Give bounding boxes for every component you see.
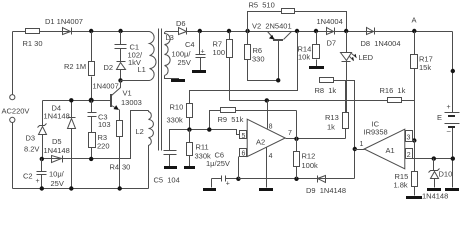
svg-text:D7: D7: [327, 39, 337, 48]
resistor R8: [320, 78, 334, 83]
node D3-C2-D5: [40, 157, 44, 161]
resistor R10: [187, 104, 193, 118]
resistor R15: [414, 141, 416, 196]
inductor L3 secondary winding: [164, 31, 178, 75]
svg-text:10k: 10k: [298, 53, 310, 62]
diode D8: [367, 28, 374, 35]
svg-text:1N4148: 1N4148: [44, 112, 70, 121]
node V2 base junction: [276, 78, 280, 82]
svg-text:5: 5: [242, 133, 246, 140]
wire left vertical lower: [12, 123, 14, 189]
svg-text:E: E: [437, 113, 442, 122]
diode D7: [327, 28, 334, 35]
node pin7 junction: [294, 137, 298, 141]
svg-text:LED: LED: [359, 53, 374, 62]
node rail down-branch: [295, 29, 299, 33]
svg-text:R2 1M: R2 1M: [64, 62, 86, 71]
svg-text:+: +: [447, 104, 451, 111]
resistor R9 feedback: [210, 111, 297, 139]
svg-text:AC220V: AC220V: [2, 107, 30, 116]
node R2-C3 junction: [89, 98, 94, 103]
svg-text:R9 51k: R9 51k: [218, 115, 244, 124]
wire mid-left rail: [42, 111, 149, 159]
node LED junction: [344, 29, 348, 33]
svg-text:R5 510: R5 510: [249, 1, 275, 10]
svg-text:330k: 330k: [167, 116, 184, 125]
node D4 bottom rail: [69, 186, 73, 190]
node junction rail-R2: [89, 29, 93, 33]
svg-text:D8 1N4004: D8 1N4004: [361, 39, 401, 48]
resistor R5: [248, 12, 347, 32]
wire battery vertical: [452, 32, 454, 188]
svg-text:+: +: [36, 178, 40, 185]
svg-text:6: 6: [242, 151, 246, 158]
node C6-pin6 junction: [236, 177, 240, 181]
resistor R11: [189, 130, 191, 167]
resistor R3: [89, 133, 96, 148]
svg-text:1N4148: 1N4148: [422, 192, 448, 201]
resistor R12: [296, 139, 298, 179]
wire rail to R10: [190, 32, 298, 104]
svg-text:100k: 100k: [302, 161, 319, 170]
node R12 bottom: [294, 177, 298, 181]
ground battery: [445, 188, 459, 191]
node A: [412, 29, 416, 33]
inductor L1 primary winding: [150, 32, 156, 81]
node C4 junction: [198, 29, 202, 33]
battery E: [445, 113, 460, 124]
svg-text:8.2V: 8.2V: [24, 145, 39, 154]
capacitor C4 electrolytic: [196, 32, 206, 71]
capacitor C5: [164, 151, 177, 167]
pin3 callout: [412, 140, 415, 142]
svg-text:25V: 25V: [178, 58, 191, 67]
svg-text:IR9358: IR9358: [364, 128, 388, 137]
svg-text:1: 1: [360, 141, 364, 148]
svg-text:V2 2N5401: V2 2N5401: [252, 22, 292, 31]
svg-text:D3: D3: [26, 134, 36, 143]
resistor R17: [414, 32, 416, 141]
wire A1 pin2 output net: [405, 158, 453, 160]
svg-text:2: 2: [407, 152, 411, 159]
svg-text:A1: A1: [386, 146, 395, 155]
wire top rail secondary: [187, 31, 453, 33]
svg-text:+: +: [226, 181, 230, 188]
diode D5: [52, 156, 62, 163]
ground R14: [309, 66, 324, 69]
node R4 bottom rail: [118, 186, 122, 190]
svg-text:D2: D2: [104, 63, 114, 72]
svg-text:R10: R10: [170, 103, 184, 112]
svg-text:100: 100: [213, 48, 226, 57]
svg-text:R16 1k: R16 1k: [380, 86, 406, 95]
node pin3 junction: [412, 138, 416, 142]
svg-text:C4: C4: [185, 40, 195, 49]
node R10-R11 junction: [187, 127, 191, 131]
svg-text:–: –: [447, 129, 451, 136]
svg-text:7: 7: [288, 130, 292, 137]
ground R11: [184, 166, 195, 169]
node R5-R6 junction: [245, 29, 249, 33]
resistor R2: [91, 32, 93, 101]
node collector junction: [118, 78, 122, 82]
node A1 pin1: [353, 147, 357, 151]
svg-text:1N4007: 1N4007: [93, 82, 119, 91]
transformer core: [159, 29, 162, 151]
resistor R4: [119, 110, 121, 189]
svg-text:10μ/: 10μ/: [49, 170, 65, 179]
diode D2: [117, 61, 126, 63]
svg-text:8: 8: [269, 123, 273, 130]
svg-text:R11: R11: [196, 143, 209, 152]
svg-text:C2: C2: [23, 172, 33, 181]
svg-text:A: A: [412, 16, 417, 25]
svg-text:D5: D5: [52, 137, 62, 146]
svg-text:V1: V1: [123, 89, 132, 98]
svg-text:D1 1N4007: D1 1N4007: [45, 17, 83, 26]
ground C6: [203, 188, 216, 191]
node AC terminal lower: [10, 117, 15, 122]
svg-text:L1: L1: [138, 65, 146, 74]
diode D3 zener 8.2V: [42, 101, 44, 126]
svg-text:13003: 13003: [121, 98, 142, 107]
node R14 junction: [314, 29, 318, 33]
capacitor C6 electrolytic: [212, 176, 239, 182]
svg-text:R1 30: R1 30: [23, 39, 43, 48]
svg-text:1N4004: 1N4004: [317, 17, 343, 26]
svg-text:30: 30: [122, 163, 130, 172]
wire left vertical to AC terminal: [12, 32, 14, 95]
wire A2 output pin7: [286, 138, 346, 140]
ground C5: [164, 166, 177, 169]
svg-text:D9 1N4148: D9 1N4148: [306, 186, 346, 195]
wire bottom net: [239, 178, 355, 180]
inductor L2 feedback winding: [149, 111, 154, 189]
diode D6: [179, 28, 187, 35]
diode D9: [317, 176, 319, 183]
capacitor C3: [88, 101, 97, 133]
svg-text:R13: R13: [325, 113, 339, 122]
svg-text:D10: D10: [439, 170, 453, 179]
svg-text:R4: R4: [110, 163, 120, 172]
op-amp A1: [364, 129, 405, 169]
svg-text:4: 4: [269, 153, 273, 160]
svg-text:1N4148: 1N4148: [44, 146, 70, 155]
node R9 junction: [207, 127, 211, 131]
svg-text:220: 220: [97, 142, 110, 151]
svg-text:1k: 1k: [327, 123, 335, 132]
resistor R16: [388, 98, 402, 103]
svg-text:A2: A2: [256, 138, 265, 147]
node battery wire dot: [451, 69, 455, 73]
node D10 junction: [432, 156, 436, 160]
svg-text:103: 103: [98, 120, 111, 129]
svg-text:L3: L3: [166, 33, 174, 42]
resistor R13: [345, 81, 347, 139]
svg-text:C5 104: C5 104: [154, 176, 180, 185]
wire pin8 lead: [267, 101, 269, 129]
resistor R6: [248, 32, 279, 81]
wire pin6 lead: [238, 157, 240, 179]
node C2 bottom rail: [40, 186, 44, 190]
svg-text:L2: L2: [136, 127, 144, 136]
wire pin5 input: [170, 130, 240, 151]
wire bottom rail: [13, 188, 149, 190]
op-amp A2: [247, 119, 285, 156]
diode D4: [68, 101, 76, 118]
wire collector to L1 bottom: [121, 80, 150, 82]
svg-text:3: 3: [407, 134, 411, 141]
transistor V1 13003: [43, 100, 111, 102]
svg-text:1μ/25V: 1μ/25V: [206, 159, 230, 168]
pin2 callout: [406, 149, 413, 159]
diode D1: [63, 28, 71, 35]
node pin2 net battery junction: [451, 156, 455, 160]
resistor R14: [316, 32, 318, 67]
ground A2 pin4: [259, 188, 273, 191]
wire LED to R13: [346, 62, 348, 113]
ground L3: [171, 79, 185, 82]
node R7 junction: [227, 29, 231, 33]
svg-text:15k: 15k: [419, 63, 431, 72]
wire top rail primary: [13, 31, 150, 33]
node R3 bottom: [89, 157, 93, 161]
svg-text:D6: D6: [176, 19, 186, 28]
resistor R1: [26, 29, 40, 34]
capacitor C1: [115, 32, 127, 62]
ground D10: [427, 188, 441, 191]
wire pin8 rail: [230, 100, 388, 102]
svg-text:25V: 25V: [51, 179, 64, 188]
svg-text:R8 1k: R8 1k: [315, 86, 337, 95]
resistor R7: [229, 32, 231, 101]
svg-text:R12: R12: [302, 152, 316, 161]
node D4-base wire: [69, 98, 73, 102]
node pin8 junction: [265, 98, 269, 102]
svg-text:+: +: [201, 49, 205, 56]
svg-text:1.8k: 1.8k: [394, 181, 408, 190]
wire A2 pin4 to ground: [266, 148, 268, 188]
ground C4: [192, 70, 206, 73]
diode D10 zener: [433, 159, 435, 171]
node junction rail-C1: [118, 29, 122, 33]
svg-text:330: 330: [252, 55, 265, 64]
node AC terminal upper: [10, 95, 15, 100]
ground R15: [406, 196, 422, 199]
LED: [346, 32, 348, 53]
transistor V2 2N5401: [268, 32, 275, 40]
wire L3 bottom to ground: [165, 76, 179, 80]
capacitor C2 electrolytic: [37, 159, 47, 189]
